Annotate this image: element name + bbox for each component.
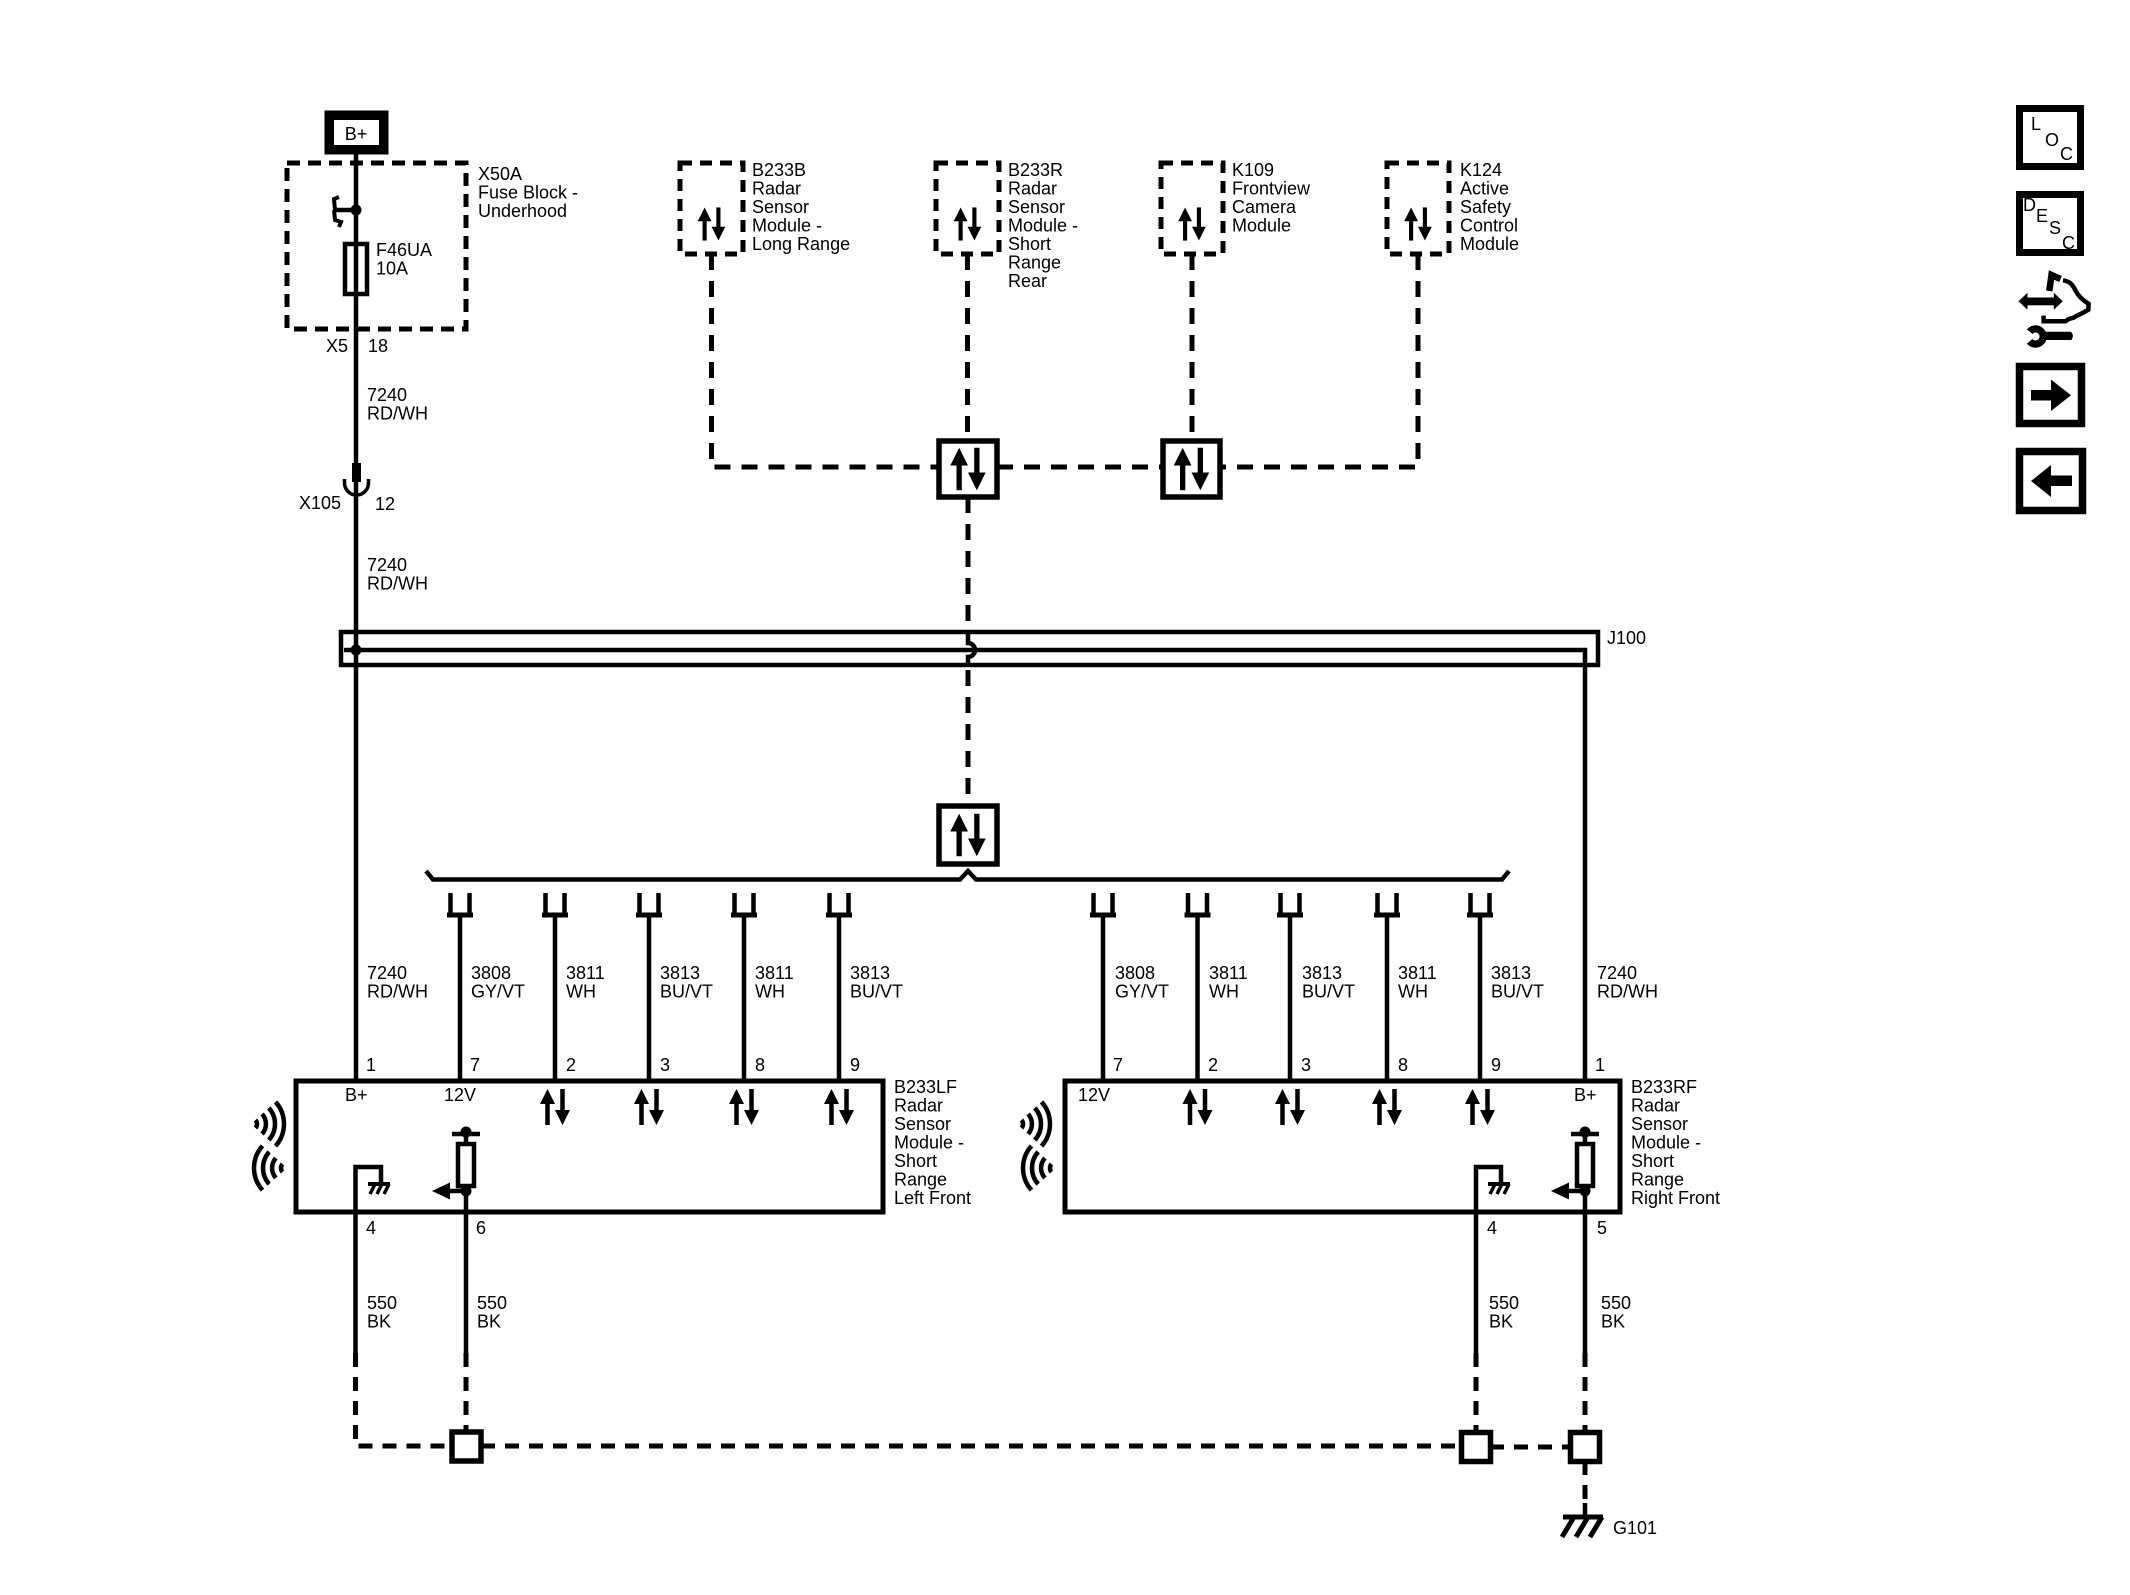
serial data wire from B233R xyxy=(965,254,970,441)
svg-text:550: 550 xyxy=(1489,1293,1519,1313)
svg-text:8: 8 xyxy=(1398,1055,1408,1075)
svg-text:550: 550 xyxy=(367,1293,397,1313)
ground bus dashed between right splices xyxy=(1490,1445,1571,1450)
svg-text:BU/VT: BU/VT xyxy=(660,982,713,1002)
ground drop to G101 (dashed) xyxy=(1583,1461,1588,1503)
svg-text:7240: 7240 xyxy=(367,963,407,983)
svg-text:Radar: Radar xyxy=(752,179,801,199)
ground wire pin5 B233RF (solid part) xyxy=(1583,1212,1588,1353)
svg-text:BK: BK xyxy=(477,1312,501,1332)
svg-text:2: 2 xyxy=(566,1055,576,1075)
wire 3813 BU/VT left a xyxy=(647,915,652,1081)
terminal connector pin8 right xyxy=(1374,893,1400,915)
svg-text:Left Front: Left Front xyxy=(894,1188,971,1208)
svg-text:WH: WH xyxy=(1209,982,1239,1002)
terminal connector pin9 left xyxy=(826,893,852,915)
svg-text:RD/WH: RD/WH xyxy=(367,982,428,1002)
ground bus dashed main xyxy=(481,1444,1462,1449)
svg-text:12V: 12V xyxy=(444,1085,476,1105)
svg-text:3811: 3811 xyxy=(755,963,794,983)
svg-text:3813: 3813 xyxy=(1302,963,1342,983)
svg-text:BK: BK xyxy=(1489,1312,1513,1332)
wire labels 550 BK xyxy=(367,1293,1631,1332)
svg-text:Range: Range xyxy=(1631,1170,1684,1190)
wire labels right group xyxy=(1115,963,1658,1002)
svg-text:D: D xyxy=(2023,195,2036,215)
label B233RF Radar Sensor Module - Short Range Right Front xyxy=(1631,1077,1720,1208)
wire label 7240 RD/WH (upper) xyxy=(367,385,428,424)
svg-text:2: 2 xyxy=(1208,1055,1218,1075)
svg-text:S: S xyxy=(2049,218,2061,238)
svg-text:10A: 10A xyxy=(376,259,408,279)
svg-text:7240: 7240 xyxy=(367,385,407,405)
svg-text:B+: B+ xyxy=(345,124,368,144)
pin numbers left module top xyxy=(366,1055,860,1075)
label K124 Active Safety Control Module xyxy=(1460,160,1519,254)
wire label 7240 RD/WH (lower) xyxy=(367,555,428,594)
serial data wire from K124 (dashed corner) xyxy=(1220,254,1418,467)
terminal connector pin7 left xyxy=(447,893,473,915)
svg-text:B+: B+ xyxy=(345,1085,368,1105)
sidebar icon LOC xyxy=(2020,109,2081,167)
svg-text:BU/VT: BU/VT xyxy=(1491,982,1544,1002)
connector X105 pin 12 xyxy=(345,463,369,495)
svg-text:Underhood: Underhood xyxy=(478,201,567,221)
fuse clip terminal xyxy=(334,197,356,227)
ground wire pin4 B233RF (solid part) xyxy=(1474,1212,1479,1353)
svg-text:BU/VT: BU/VT xyxy=(850,982,903,1002)
label B233LF Radar Sensor Module - Short Range Left Front xyxy=(894,1077,971,1208)
svg-text:RD/WH: RD/WH xyxy=(367,404,428,424)
svg-text:Short: Short xyxy=(894,1151,937,1171)
serial data wire J100 to comm node 3 xyxy=(966,670,971,806)
svg-text:12V: 12V xyxy=(1078,1085,1110,1105)
svg-text:7240: 7240 xyxy=(1597,963,1637,983)
svg-text:O: O xyxy=(2045,130,2059,150)
svg-text:WH: WH xyxy=(755,982,785,1002)
module K109 (dashed box) xyxy=(1161,163,1223,254)
serial data wire from B233B (dashed corner) xyxy=(712,254,940,467)
power feed B+ xyxy=(325,111,388,154)
svg-text:Long Range: Long Range xyxy=(752,234,850,254)
svg-text:3811: 3811 xyxy=(1398,963,1437,983)
wire 3811 WH left a xyxy=(553,915,558,1081)
svg-text:L: L xyxy=(2031,114,2041,134)
svg-text:3811: 3811 xyxy=(566,963,605,983)
splice S2 xyxy=(1462,1433,1491,1462)
terminal connector pin8 left xyxy=(731,893,757,915)
svg-text:Module: Module xyxy=(1460,234,1519,254)
svg-text:Sensor: Sensor xyxy=(1008,197,1065,217)
terminal connector pin7 right xyxy=(1090,893,1116,915)
label B233R Radar Sensor Module - Short Range Rear xyxy=(1008,160,1078,291)
serial data hop over J100 bus xyxy=(968,630,975,667)
comm node box 3 xyxy=(939,806,997,864)
sidebar icon forward arrow xyxy=(2020,367,2082,424)
label X50A Fuse Block - Underhood xyxy=(478,164,578,221)
svg-text:1: 1 xyxy=(366,1055,376,1075)
radar wave icon B233RF receive xyxy=(1023,1146,1051,1190)
junction dot on J100 bus xyxy=(351,645,362,656)
internal ground in B233RF xyxy=(1476,1167,1510,1212)
svg-text:3808: 3808 xyxy=(471,963,511,983)
comm node box 1 xyxy=(939,441,997,497)
radar module B233RF box xyxy=(1065,1081,1620,1212)
svg-text:3813: 3813 xyxy=(1491,963,1531,983)
svg-text:5: 5 xyxy=(1597,1218,1607,1238)
svg-text:RD/WH: RD/WH xyxy=(367,574,428,594)
junction dot at clip xyxy=(351,205,362,216)
svg-text:4: 4 xyxy=(1487,1218,1497,1238)
module K124 (dashed box) xyxy=(1387,163,1449,254)
pin numbers right module top xyxy=(1113,1055,1605,1075)
svg-text:Safety: Safety xyxy=(1460,197,1511,217)
svg-text:J100: J100 xyxy=(1607,628,1646,648)
svg-text:Right Front: Right Front xyxy=(1631,1188,1720,1208)
svg-text:3811: 3811 xyxy=(1209,963,1248,983)
terminal connector pin3 left xyxy=(636,893,662,915)
wire 3811 WH right b xyxy=(1385,915,1390,1081)
terminal connector pin2 right xyxy=(1185,893,1211,915)
ground wire pin6 B233LF (dashed) xyxy=(464,1353,469,1432)
svg-text:Module -: Module - xyxy=(752,216,822,236)
svg-text:Module -: Module - xyxy=(1631,1133,1701,1153)
svg-text:Active: Active xyxy=(1460,179,1509,199)
svg-text:Module -: Module - xyxy=(894,1133,964,1153)
svg-text:550: 550 xyxy=(1601,1293,1631,1313)
svg-text:1: 1 xyxy=(1595,1055,1605,1075)
svg-text:Radar: Radar xyxy=(1631,1096,1680,1116)
svg-text:K124: K124 xyxy=(1460,160,1502,180)
terminal connector pin9 right xyxy=(1467,893,1493,915)
pin labels X5 / 18 xyxy=(326,336,388,356)
svg-text:X5: X5 xyxy=(326,336,348,356)
svg-text:Range: Range xyxy=(1008,253,1061,273)
svg-text:GY/VT: GY/VT xyxy=(1115,982,1169,1002)
radar wave icon B233LF receive xyxy=(254,1146,282,1190)
svg-text:Sensor: Sensor xyxy=(894,1114,951,1134)
junction block J100 xyxy=(341,628,1646,1081)
svg-text:X105: X105 xyxy=(299,493,341,513)
splice S3 xyxy=(1571,1433,1600,1462)
svg-text:18: 18 xyxy=(368,336,388,356)
svg-text:WH: WH xyxy=(1398,982,1428,1002)
svg-text:9: 9 xyxy=(1491,1055,1501,1075)
label K109 Frontview Camera Module xyxy=(1232,160,1311,236)
ground wire pin5 B233RF (dashed) xyxy=(1583,1353,1588,1433)
svg-text:BU/VT: BU/VT xyxy=(1302,982,1355,1002)
svg-text:C: C xyxy=(2062,233,2075,253)
internal ground in B233LF xyxy=(356,1167,391,1212)
internal supply bar and resistor in B233LF xyxy=(432,1127,480,1213)
wire labels left group xyxy=(367,963,903,1002)
svg-text:E: E xyxy=(2036,206,2048,226)
svg-text:B233R: B233R xyxy=(1008,160,1063,180)
ground wire pin4 B233LF (dashed corner to splice) xyxy=(356,1353,453,1446)
svg-text:3813: 3813 xyxy=(850,963,890,983)
ground wire pin4 B233LF (solid part) xyxy=(353,1212,358,1353)
fuse F46UA 10A xyxy=(345,244,367,294)
serial data wire from K109 xyxy=(1190,254,1195,441)
svg-text:3808: 3808 xyxy=(1115,963,1155,983)
radar wave icon B233RF transmit xyxy=(1022,1102,1050,1146)
wire 3813 BU/VT right a xyxy=(1288,915,1293,1081)
svg-text:6: 6 xyxy=(476,1218,486,1238)
svg-text:9: 9 xyxy=(850,1055,860,1075)
svg-text:Camera: Camera xyxy=(1232,197,1297,217)
pin numbers bottom xyxy=(366,1218,1607,1238)
svg-text:BK: BK xyxy=(1601,1312,1625,1332)
svg-text:Module: Module xyxy=(1232,216,1291,236)
sidebar icon back arrow xyxy=(2020,452,2083,511)
radar module B233LF box xyxy=(296,1081,883,1212)
wire 3811 WH left b xyxy=(742,915,747,1081)
sidebar icon service (arrows, panel, wrench) xyxy=(2019,275,2089,344)
svg-text:4: 4 xyxy=(366,1218,376,1238)
brace fanout xyxy=(426,871,1509,880)
svg-text:Range: Range xyxy=(894,1170,947,1190)
svg-text:Control: Control xyxy=(1460,216,1518,236)
serial data wire comm node 1 down to J100 xyxy=(966,497,971,627)
ground G101 xyxy=(1562,1503,1657,1538)
sidebar icon DESC xyxy=(2020,195,2081,254)
label B233B Radar Sensor Module - Long Range xyxy=(752,160,850,254)
svg-text:BK: BK xyxy=(367,1312,391,1332)
svg-text:Sensor: Sensor xyxy=(752,197,809,217)
fuse block X50A (dashed) xyxy=(287,163,466,329)
radar wave icon B233LF transmit xyxy=(256,1102,284,1146)
wire 3813 BU/VT right b xyxy=(1478,915,1483,1081)
svg-text:GY/VT: GY/VT xyxy=(471,982,525,1002)
svg-text:Radar: Radar xyxy=(894,1096,943,1116)
svg-text:Sensor: Sensor xyxy=(1631,1114,1688,1134)
svg-text:3813: 3813 xyxy=(660,963,700,983)
ground wire pin4 B233RF (dashed) xyxy=(1474,1353,1479,1433)
svg-text:7: 7 xyxy=(470,1055,480,1075)
svg-text:3: 3 xyxy=(1301,1055,1311,1075)
svg-text:WH: WH xyxy=(566,982,596,1002)
wire B+ to fuse block and down xyxy=(354,154,359,1081)
svg-text:Radar: Radar xyxy=(1008,179,1057,199)
internal supply bar and resistor in B233RF xyxy=(1551,1127,1599,1213)
wire 3808 GY/VT left xyxy=(458,915,463,1081)
serial data bus segment between comm nodes xyxy=(997,465,1163,470)
svg-text:7240: 7240 xyxy=(367,555,407,575)
module B233R (dashed box) xyxy=(936,163,999,254)
comm arrows inside B233LF xyxy=(540,1089,570,1125)
svg-text:Short: Short xyxy=(1631,1151,1674,1171)
svg-text:C: C xyxy=(2060,144,2073,164)
svg-text:Fuse Block -: Fuse Block - xyxy=(478,183,578,203)
wire 3813 BU/VT left b xyxy=(837,915,842,1081)
svg-text:Short: Short xyxy=(1008,234,1051,254)
svg-text:X50A: X50A xyxy=(478,164,522,184)
terminal connector pin3 right xyxy=(1277,893,1303,915)
svg-text:K109: K109 xyxy=(1232,160,1274,180)
svg-text:3: 3 xyxy=(660,1055,670,1075)
comm arrows inside B233RF xyxy=(1183,1089,1213,1125)
svg-text:Frontview: Frontview xyxy=(1232,179,1311,199)
svg-text:8: 8 xyxy=(755,1055,765,1075)
svg-text:B233RF: B233RF xyxy=(1631,1077,1697,1097)
comm node box 2 xyxy=(1163,441,1220,497)
svg-text:B233B: B233B xyxy=(752,160,806,180)
svg-text:B233LF: B233LF xyxy=(894,1077,957,1097)
svg-text:Rear: Rear xyxy=(1008,271,1047,291)
terminal connector pin2 left xyxy=(542,893,568,915)
svg-text:12: 12 xyxy=(375,494,395,514)
splice S1 xyxy=(452,1432,481,1461)
svg-text:RD/WH: RD/WH xyxy=(1597,982,1658,1002)
svg-text:F46UA: F46UA xyxy=(376,240,432,260)
svg-text:Module -: Module - xyxy=(1008,216,1078,236)
svg-text:7: 7 xyxy=(1113,1055,1123,1075)
wire 3808 GY/VT right xyxy=(1101,915,1106,1081)
svg-text:G101: G101 xyxy=(1613,1518,1657,1538)
svg-text:B+: B+ xyxy=(1574,1085,1597,1105)
svg-text:550: 550 xyxy=(477,1293,507,1313)
wire 3811 WH right a xyxy=(1195,915,1200,1081)
ground wire pin6 B233LF (solid part) xyxy=(464,1212,469,1353)
module B233B (dashed box) xyxy=(680,163,743,254)
